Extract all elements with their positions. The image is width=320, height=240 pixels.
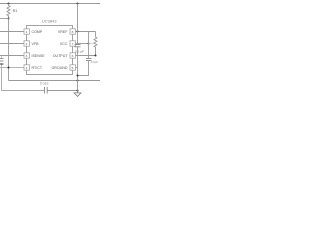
svg-text:5: 5 (72, 66, 74, 70)
pin 4 box (24, 65, 30, 70)
svg-text:8: 8 (72, 30, 74, 34)
resistor RL (94, 32, 97, 56)
capacitor Cosc in bottom rail (44, 87, 46, 94)
svg-text:2: 2 (26, 42, 28, 46)
wire VCC branch vertical (88, 32, 90, 59)
node junction output (95, 55, 97, 57)
capacitor left edge (1, 55, 3, 58)
node junction top-left (8, 3, 10, 5)
pin 6 box (70, 53, 76, 58)
pin 3 box (24, 53, 30, 58)
svg-text:OUTPUT: OUTPUT (53, 54, 69, 58)
wire pin3 ISENSE (0, 55, 24, 57)
svg-text:VREF: VREF (58, 30, 68, 34)
pin 2 box (24, 41, 30, 46)
wire pin2 VFB (0, 43, 24, 45)
svg-text:Cosc: Cosc (40, 81, 49, 85)
svg-text:COMP: COMP (32, 30, 43, 34)
svg-text:7: 7 (72, 42, 74, 46)
svg-text:0.1 µF: 0.1 µF (75, 50, 84, 54)
pin 8 box (70, 29, 76, 34)
ground symbol (74, 91, 81, 97)
node junction lower rail (77, 80, 79, 82)
svg-text:VCC: VCC (60, 42, 68, 46)
wire pin8 VREF to rail (76, 31, 96, 33)
node junction pin4 (8, 67, 10, 69)
svg-text:GROUND: GROUND (52, 66, 68, 70)
IC U1 UC3843 body (27, 26, 73, 75)
wire VCC cap to ground line (78, 61, 89, 76)
wire stub left (0, 18, 9, 20)
svg-text:6: 6 (72, 54, 74, 58)
node junction at 75 (77, 75, 79, 77)
capacitor C VCC bypass (86, 58, 92, 60)
node junction ground rail (76, 89, 78, 91)
svg-text:ISENSE: ISENSE (32, 54, 46, 58)
wire bottom rail right part (48, 90, 78, 92)
wire pin6 OUTPUT (76, 55, 96, 57)
node junction VREF (77, 31, 79, 33)
svg-text:R1: R1 (13, 9, 18, 13)
node junction top-right (77, 3, 79, 5)
resistor R1 (7, 4, 10, 19)
wire pin4 RT/CT (0, 67, 24, 69)
svg-text:RT/CT: RT/CT (32, 66, 43, 70)
svg-text:VFB: VFB (32, 42, 40, 46)
wire lower mid rail (9, 80, 101, 82)
svg-text:4: 4 (26, 66, 28, 70)
wire VCC faint to resistor (89, 43, 94, 45)
pin 1 box (24, 29, 30, 34)
wire VREF cap to ground (77, 47, 79, 90)
pin 7 box (70, 41, 76, 46)
node junction VCC (88, 43, 90, 45)
capacitor C VREF bypass (75, 44, 81, 46)
wire cap to ground rail (2, 65, 45, 91)
pin 5 box (70, 65, 76, 70)
wire pin1 COMP (0, 31, 24, 33)
node junction left (8, 18, 10, 20)
svg-text:UC3843: UC3843 (42, 20, 57, 24)
svg-text:1: 1 (26, 30, 28, 34)
wire pin5 GROUND stub (76, 67, 78, 69)
svg-text:0.1µF: 0.1µF (91, 60, 98, 64)
wire top VREF rail (0, 3, 100, 5)
wire VREF vertical upper (77, 4, 79, 45)
wire pin7 VCC (76, 43, 89, 45)
svg-text:3: 3 (26, 54, 28, 58)
wire left vertical bus (8, 19, 10, 81)
